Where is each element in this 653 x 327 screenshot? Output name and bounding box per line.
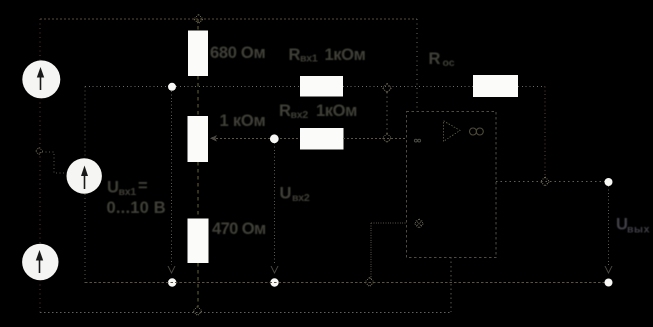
wire V2 bottom stub	[84, 194, 86, 283]
wire Uvyx measurement line	[608, 186, 610, 265]
resistor Rvx2	[300, 128, 344, 149]
wire top-left drop to source V1	[39, 19, 41, 61]
wire link R1 bottom to R2 top	[197, 76, 199, 116]
wire node row y86 from V2 column to Rvx1	[85, 86, 300, 88]
svg-text:вх1: вх1	[300, 53, 318, 65]
wire supply drop from top rail to op-amp box	[416, 19, 418, 111]
node connector diamond on output wire	[541, 177, 550, 186]
wire R1 top stub	[197, 19, 199, 30]
junction dot output	[605, 178, 613, 186]
node connector diamond B	[383, 134, 392, 143]
svg-text:R: R	[279, 102, 291, 120]
svg-text:R: R	[289, 46, 301, 64]
wire op-amp output	[496, 181, 609, 183]
inverting input marker oo	[414, 139, 420, 142]
wire zigzag from left rail to source V2	[42, 152, 66, 173]
node connector diamond on top rail	[194, 15, 203, 24]
svg-text:1кОм: 1кОм	[316, 102, 357, 120]
svg-text:вх2: вх2	[292, 192, 310, 204]
wire bottom rail	[40, 312, 451, 314]
svg-text:470 Ом: 470 Ом	[212, 220, 266, 238]
resistor Roc	[473, 75, 518, 97]
resistor R1 680 Ом	[188, 30, 208, 76]
junction dot node y86	[168, 83, 176, 91]
wire ground rail y283	[85, 282, 609, 284]
wire noninverting drop to bottom node	[370, 223, 372, 279]
wire feedback drop	[544, 87, 546, 182]
svg-text:1кОм: 1кОм	[325, 46, 366, 64]
junction dot wiper node	[270, 134, 279, 143]
wire Uvx2 measurement line	[274, 143, 276, 265]
svg-text:1 кОм: 1 кОм	[220, 112, 266, 130]
junction dot Uvx2 bottom	[270, 278, 278, 286]
wire op-amp bottom supply drop	[450, 257, 452, 312]
label Uvx1 = 0...10 V	[107, 177, 166, 217]
svg-text:вых: вых	[627, 224, 650, 236]
node connector diamond on bottom rail	[193, 307, 202, 316]
wire left rail mid	[39, 98, 41, 244]
wire Uvx1 measurement line	[171, 91, 173, 265]
op-amp triangle symbol	[444, 121, 461, 142]
svg-text:U: U	[280, 185, 292, 203]
value label 680 Ом	[210, 44, 265, 62]
arrowhead Uvx1	[168, 266, 175, 273]
junction dot Uvx1 bottom	[168, 278, 176, 286]
value label 1 кОм	[220, 112, 266, 130]
svg-text:680 Ом: 680 Ом	[210, 44, 265, 62]
op-amp U1 box	[407, 111, 497, 257]
wire node A drop to inverting input	[386, 92, 388, 134]
potentiometer wiper arrow	[210, 135, 217, 142]
wire top rail	[40, 18, 417, 20]
label Rvx2 1kOm	[279, 102, 357, 121]
svg-text:ос: ос	[443, 57, 455, 69]
svg-text:U: U	[107, 179, 119, 197]
node connector diamond on left rail	[36, 148, 43, 155]
arrowhead Uvyx	[605, 266, 612, 273]
svg-text:=: =	[138, 177, 148, 195]
label Rvx1 1kOm	[289, 46, 366, 65]
node connector diamond A	[383, 84, 392, 93]
wire V2 top stub	[84, 87, 86, 159]
junction dot Uvyx bottom	[605, 279, 613, 287]
wire Rvx2 to inverting input	[343, 138, 406, 140]
svg-text:вх2: вх2	[291, 109, 309, 121]
current source V3	[22, 244, 58, 280]
current source V1	[22, 60, 60, 98]
wire noninverting input	[371, 222, 406, 224]
current source V2 (Uvx1 source)	[67, 158, 102, 193]
wire node A row y86 from Rvx1 to Roc	[343, 86, 473, 88]
op-amp infinity gain symbol	[470, 128, 484, 135]
label Roc	[429, 50, 455, 69]
svg-text:0...10 В: 0...10 В	[107, 199, 166, 217]
wire link R2 bottom to R3 top	[197, 162, 199, 218]
label Uvx2	[280, 185, 310, 205]
wire wiper to Rvx2	[216, 138, 300, 140]
resistor Rvx1	[300, 76, 343, 96]
arrowhead Uvx2	[271, 266, 278, 273]
resistor R3 470 Ом	[188, 219, 209, 264]
node connector diamond on rail y283	[365, 278, 374, 287]
potentiometer R2 1 кОм	[188, 116, 209, 162]
wire 470 Ом bottom stub	[197, 263, 199, 307]
wire left rail bottom	[39, 280, 41, 313]
node connector diamond noninverting	[415, 219, 424, 228]
label Uvyx	[616, 216, 650, 236]
svg-text:R: R	[429, 50, 441, 68]
wire Roc right	[518, 86, 545, 88]
svg-text:вх1: вх1	[119, 186, 137, 198]
value label 470 Ом	[212, 220, 266, 238]
